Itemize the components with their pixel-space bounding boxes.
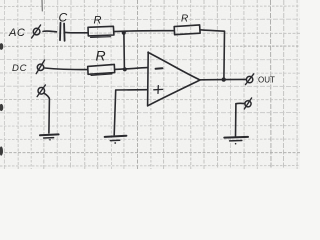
ground G2 <box>105 136 127 144</box>
wire vertical to ground G3 <box>235 104 237 137</box>
svg-text:OUT: OUT <box>258 76 275 85</box>
wire lower terminal to ground G3 <box>236 102 245 104</box>
op-amp output wire <box>199 78 246 81</box>
AC input terminal <box>32 25 41 38</box>
resistor R2 <box>174 25 200 35</box>
scan artifact left edge 1 <box>0 43 3 50</box>
wire C1 to R1 <box>65 31 87 33</box>
wire R2 to feedback drop <box>200 30 224 31</box>
wire vertical to ground G2 <box>114 90 116 135</box>
svg-text:R: R <box>94 15 102 27</box>
scan artifact top tick <box>41 0 43 11</box>
op-amp U1 <box>148 52 200 106</box>
svg-text:AC: AC <box>8 27 25 39</box>
wire node A to node B <box>123 33 126 69</box>
non-inverting input marker <box>154 86 163 94</box>
lower output terminal <box>244 98 251 109</box>
resistor R3 <box>88 64 115 75</box>
wire R3 to op-amp inverting input <box>115 68 148 70</box>
svg-text:R: R <box>181 14 188 25</box>
inverting input marker <box>156 67 163 70</box>
ground G3 <box>224 137 248 145</box>
node B junction <box>123 67 127 71</box>
wire vertical to ground G1 <box>48 99 51 133</box>
svg-text:R: R <box>96 48 106 64</box>
resistor R1 <box>88 26 114 37</box>
wire DC terminal to R3 <box>45 68 88 70</box>
wire R1 to R2 <box>114 30 174 33</box>
feedback vertical wire <box>223 31 226 79</box>
svg-text:DC: DC <box>12 63 27 74</box>
wire left lower terminal to ground G1 <box>44 93 49 99</box>
node A junction <box>122 31 126 35</box>
wire non-inverting input to ground <box>116 89 147 91</box>
wire AC terminal to C1 <box>43 30 57 33</box>
ground G1 <box>40 134 59 140</box>
scan artifact left edge 2 <box>0 104 3 111</box>
output node junction <box>222 77 226 81</box>
left lower terminal <box>37 85 45 97</box>
capacitor C1 <box>60 23 65 41</box>
output terminal <box>246 74 254 85</box>
scan artifact left edge 3 <box>0 146 3 155</box>
DC input terminal <box>36 60 44 74</box>
svg-text:C: C <box>59 11 68 25</box>
